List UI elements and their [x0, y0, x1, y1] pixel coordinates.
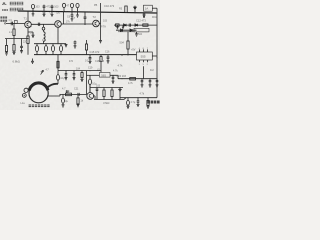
choke L2 (x43.5) [43, 24, 45, 27]
diode D4 [130, 29, 132, 31]
svg-text:4.7k: 4.7k [128, 82, 133, 85]
svg-text:C20 103: C20 103 [117, 75, 127, 78]
ground (T1 bias) [28, 32, 35, 37]
transistor T4 [87, 93, 94, 100]
U2 bottom pins [140, 60, 148, 62]
svg-text:10µ: 10µ [60, 77, 65, 80]
IF transformer winding 1 [36, 44, 38, 46]
wire bus3 [58, 70, 101, 72]
svg-text:504: 504 [138, 33, 143, 36]
svg-text:PB: PB [94, 4, 98, 7]
wire left bias [5, 38, 28, 40]
capacitor C21 with ground (x113) [112, 75, 115, 83]
resistor R15 with ground (x148) [147, 98, 149, 101]
svg-text:9018: 9018 [152, 16, 158, 19]
resistor R5 (top right) [125, 6, 127, 12]
wire U3 left [87, 74, 100, 76]
capacitor C3 (above rail) with ground [43, 5, 46, 17]
capacitor C11 below U1 [143, 13, 146, 18]
wire bus4 [118, 78, 157, 80]
svg-text:1A: 1A [145, 7, 149, 11]
capacitor C16 with ground (x90) [89, 55, 92, 64]
wire top supply rail [18, 11, 157, 13]
wire U2 to rail [152, 55, 157, 57]
input coupling box [15, 20, 18, 23]
capacitor C24 with ground (x157) [156, 79, 159, 87]
resistor R8 (x101) [100, 55, 102, 57]
resistor R13 (x104) [103, 88, 105, 90]
legend text 接收电路 [10, 2, 23, 5]
capacitor C17 with ground (x108) [107, 55, 110, 63]
svg-text:220: 220 [23, 41, 28, 44]
wire T3 right [99, 23, 100, 25]
wire bus5 [120, 97, 157, 99]
svg-text:472: 472 [46, 5, 51, 8]
svg-text:6.8kΩ: 6.8kΩ [13, 59, 20, 63]
capacitor C4 (above rail) with ground [51, 5, 54, 17]
svg-text:C18 103: C18 103 [95, 60, 105, 63]
diode D2 [124, 24, 127, 27]
capacitor C20 with ground (x74) [73, 71, 76, 80]
wire T4 base [60, 93, 87, 95]
svg-text:504: 504 [120, 41, 125, 45]
wire bus6 [90, 87, 123, 89]
legend symbol transmit [2, 9, 8, 11]
svg-text:104: 104 [76, 68, 81, 71]
capacitor C22 with ground (x142) [141, 79, 144, 87]
coupling loop small [24, 88, 28, 92]
IF transformer winding 2 [45, 44, 47, 46]
legend symbol receive [2, 3, 6, 5]
resistor R10 on bus4 [130, 78, 136, 81]
svg-text:103: 103 [103, 20, 108, 23]
resistor R9 with ground (x82) [81, 71, 83, 73]
svg-text:10k: 10k [42, 38, 47, 42]
capacitor C8 on drop x85 [84, 12, 87, 25]
antenna loop L1a [29, 84, 48, 103]
diode D2b [135, 24, 138, 27]
electrolytic C18 (x58) [57, 71, 59, 75]
label bottom right [147, 101, 159, 104]
ground (x100) [99, 41, 102, 43]
resistor R3 (T1 emitter) [27, 36, 29, 44]
box filter FL1 [134, 28, 149, 32]
capacitor C31 with ground (x138) [137, 98, 140, 107]
resistor R12 with ground (x78) [77, 94, 79, 98]
svg-text:L1a: L1a [21, 102, 26, 105]
electrolytic C5 (above rail) [62, 3, 65, 7]
wire U2 pin down to bus4 [143, 66, 145, 79]
resistor R6 on wire [143, 24, 148, 26]
wire y30 with diodes [117, 29, 137, 31]
paper grain [0, 0, 160, 110]
svg-text:IC2: IC2 [150, 69, 154, 72]
capacitor C19 with ground (x66) [65, 71, 68, 80]
transistor T1 [25, 21, 32, 28]
ground stub b [122, 25, 124, 29]
wire IF row [34, 43, 66, 45]
ground (IF row) [65, 44, 68, 47]
wire vertical x100 [100, 3, 102, 40]
junction dots [13, 11, 157, 100]
ground stub a [116, 25, 118, 29]
wire T2 collector up [63, 12, 65, 24]
electrolytic C2 (above rail) [31, 4, 34, 8]
wire input left [6, 22, 25, 24]
resistor R7 vertical x128 [127, 31, 129, 41]
svg-text:C15 472: C15 472 [90, 50, 100, 54]
arrow adjust [41, 70, 44, 74]
wire bus3 down x86.5 [86, 71, 88, 95]
wire bus2 to bus3 link x58 [57, 55, 59, 71]
resistor R14 (x112) [111, 88, 113, 90]
svg-text:4.7k: 4.7k [118, 64, 124, 68]
resistor R4 x86 [86, 40, 88, 44]
svg-text:103: 103 [96, 84, 101, 87]
capacitor C12a on wire [129, 24, 130, 27]
electrolytic C6 (above rail) with cap and ground [70, 3, 73, 7]
capacitor C14 with ground [74, 41, 77, 49]
wire antenna right to base [47, 94, 60, 96]
svg-text:472: 472 [69, 60, 74, 63]
electrolytic C27 [89, 79, 92, 85]
svg-text:103: 103 [35, 6, 40, 9]
wire antenna to C18 [47, 84, 58, 88]
diode D5 (x120) [119, 88, 121, 100]
wire mid right y25 [114, 24, 157, 26]
svg-text:C16: C16 [105, 51, 110, 54]
diode D1 [134, 6, 137, 13]
wire T1 to T2 [31, 23, 54, 25]
capacitor C26 series [78, 93, 79, 96]
svg-text:+5V: +5V [131, 49, 136, 52]
resistor R6a on wire [116, 24, 120, 26]
wire mid bus2 [34, 54, 136, 56]
coupling loop small 2 [22, 94, 26, 98]
wire right rail [156, 8, 158, 97]
IF transformer winding 3 [52, 44, 54, 46]
svg-text:103: 103 [54, 6, 59, 9]
electrolytic C28 with ground (x63) [62, 94, 64, 98]
IC box U2 [137, 52, 153, 60]
svg-text:565: 565 [101, 73, 106, 77]
svg-text:C12 473: C12 473 [136, 19, 146, 23]
IC box U1 [144, 5, 153, 11]
wire T2 to T3 [61, 23, 92, 25]
svg-text:P.TA: P.TA [101, 25, 106, 28]
capacitor C1 (series input) [11, 22, 12, 26]
resistor R11 on wire [66, 93, 72, 96]
box U3 (demod) [99, 73, 110, 78]
legend text texture [10, 2, 23, 11]
svg-text:4.7k: 4.7k [113, 70, 118, 73]
antenna loop thick top [29, 83, 48, 91]
transistor T2 [55, 21, 62, 28]
wire T4 emitter out [94, 96, 95, 100]
diode D3 [121, 29, 123, 31]
input terminal [4, 23, 6, 25]
wire T4 collector up [89, 85, 91, 93]
capacitor C29 (x97) [96, 88, 99, 100]
svg-text:C10 473: C10 473 [104, 4, 115, 8]
capacitor C9 (series) [38, 23, 39, 26]
left mid text block [0, 16, 7, 21]
label texture [29, 105, 50, 107]
resistor R1 [6, 39, 8, 46]
electrolytic C30 with ground (x128) [127, 98, 129, 101]
svg-text:555: 555 [141, 55, 146, 59]
svg-text:47kΩ: 47kΩ [103, 101, 109, 105]
IF transformer winding 4 [60, 44, 62, 46]
capacitor C25 [67, 90, 68, 93]
U2 pin labels [139, 48, 149, 66]
ground (float) [31, 59, 34, 64]
svg-text:T2: T2 [93, 15, 97, 19]
label 环形接收天线 [29, 104, 50, 107]
wire lower y99.4 [94, 98, 126, 100]
resistor R2 [13, 45, 15, 52]
wire y31.8 lower parallel [118, 31, 134, 33]
scattered small labels [23, 4, 158, 104]
legend text 发射电路 [10, 8, 23, 11]
svg-text:4.7µ: 4.7µ [131, 101, 136, 104]
svg-text:C21: C21 [74, 87, 79, 90]
inductor L1 vertical x14 [13, 23, 15, 29]
capacitor C13 [20, 39, 23, 53]
background paper [0, 0, 160, 110]
wire U3 right [110, 75, 118, 78]
ground (FL1) [135, 32, 138, 36]
svg-text:T1: T1 [24, 17, 28, 21]
U2 top pins [140, 49, 148, 52]
wire T2 emitter down [57, 27, 59, 43]
wire U1 to rail [152, 7, 157, 9]
resistor R16 on x58 [57, 61, 59, 68]
svg-text:10µ: 10µ [64, 100, 69, 103]
svg-text:C19: C19 [88, 67, 93, 70]
transistor T3 [93, 20, 100, 27]
electrolytic C7 (above rail) with ground [76, 3, 79, 7]
capacitor C23 with ground (x150) [149, 79, 152, 87]
svg-text:4.7k: 4.7k [140, 93, 145, 96]
